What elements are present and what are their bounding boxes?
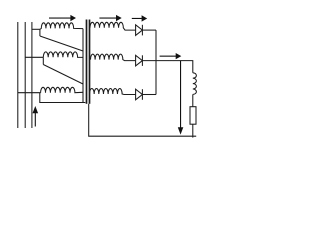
winding L1 (top primary coil) bbox=[40, 23, 83, 30]
winding L2 (middle primary coil) bbox=[43, 52, 83, 58]
wire inductor to resistor bbox=[192, 94, 194, 106]
cathode bus vertical bbox=[155, 30, 157, 94]
load resistor bbox=[190, 107, 196, 125]
diode D1 bbox=[136, 25, 143, 36]
wire D1 cathode to bus bbox=[142, 29, 156, 31]
stub below winding1 left end bbox=[39, 29, 41, 36]
secondary coil S3 bbox=[90, 88, 136, 94]
current arrow above D1 bbox=[132, 15, 147, 21]
output wire to load bbox=[142, 61, 192, 73]
secondary coil S2 bbox=[91, 54, 136, 61]
wire phase2 to winding2 bbox=[25, 56, 43, 58]
phase line 2 bbox=[24, 22, 26, 128]
diagonal winding2 to right column bbox=[43, 65, 83, 85]
current arrow above S1 bbox=[99, 15, 121, 21]
stub below winding2 left end bbox=[42, 57, 44, 64]
current arrow above L1 bbox=[49, 15, 76, 21]
wire resistor to bottom bus bbox=[192, 124, 194, 137]
wire phase3 to winding1 bbox=[32, 28, 40, 30]
wire phase1 to winding3 bbox=[18, 92, 41, 94]
diode D2 bbox=[136, 55, 143, 66]
diagonal winding1 to right column bbox=[40, 36, 83, 51]
neutral return wire bbox=[89, 104, 197, 136]
core right lamination bbox=[89, 20, 91, 104]
phase line 3 bbox=[31, 22, 33, 128]
phase line 1 bbox=[17, 22, 19, 128]
secondary coil S1 bbox=[90, 22, 136, 30]
filter inductor bbox=[193, 73, 197, 95]
primary right-side vertical bbox=[82, 29, 84, 102]
diode D3 bbox=[136, 89, 143, 100]
voltage arrow down (load) bbox=[178, 61, 184, 135]
current arrow up (bottom left) bbox=[33, 106, 39, 127]
primary return wire bbox=[40, 93, 86, 103]
winding L3 (bottom primary coil) bbox=[41, 87, 83, 92]
wire D3 cathode to bus bbox=[142, 94, 156, 96]
current arrow on output wire bbox=[160, 53, 182, 59]
core left lamination bbox=[86, 20, 88, 104]
